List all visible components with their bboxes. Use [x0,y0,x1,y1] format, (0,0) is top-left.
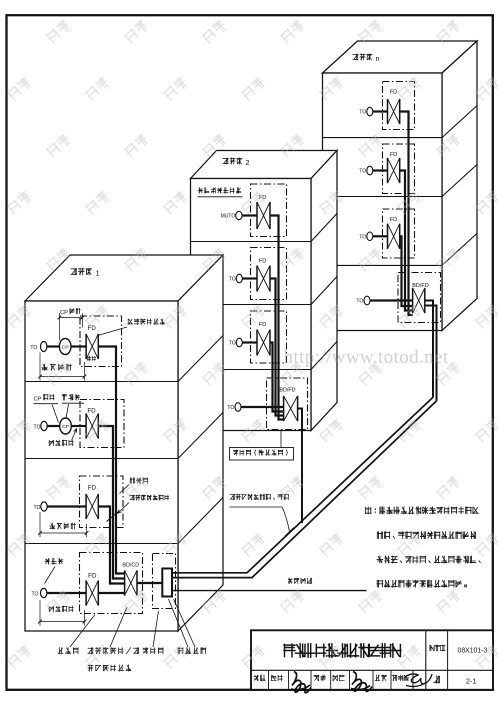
FD connector symbol, building 2 floor 3 [256,330,258,356]
tick across risers [107,512,119,522]
svg-text:2: 2 [246,158,250,167]
label: horizontal cable (floor 4) [49,606,73,612]
CP consolidation point, floor 2 [60,418,72,434]
svg-text:TO: TO [229,277,236,283]
label: building 1 [71,268,92,275]
label: building distributor / campus distributor equipment (2 lines) [88,648,139,654]
wire FD to BD/CD [98,592,124,594]
FD connector symbol, building 1 floor 1 [85,334,87,359]
building 1: isometric box [25,255,223,631]
FD box, building n floor 1 [383,82,415,130]
svg-text:FD: FD [259,259,266,265]
svg-text:TO: TO [359,110,366,116]
wire TO to CP [47,345,60,347]
FD connector symbol, building 1 floor 4 [85,580,87,605]
svg-text:FD: FD [88,573,97,580]
label: building n (jianzhuwu n) [353,54,372,60]
FD box, building 2 floor 1 [251,184,287,237]
svg-text:2-1: 2-1 [466,677,477,686]
svg-text:TO: TO [356,299,363,305]
svg-text:1: 1 [96,269,100,278]
label: building backbone cable [130,495,169,500]
campus trunk diagonal cable 1 (building n to entrance) [172,397,433,573]
label: entrance room [143,648,163,654]
wire TO to CP floor 2 [47,425,60,427]
external network line [172,590,367,592]
svg-text:FD: FD [88,485,97,492]
title block [251,630,493,690]
svg-text:MUTO: MUTO [221,214,236,220]
FD connector symbol, building n floor 2 [387,158,389,183]
signature 3 [405,674,432,687]
signature 1 [291,672,311,693]
leader from entrance room label to building 2 BD/FD [280,430,282,448]
label: permanent link dimension (floor 3) [50,523,75,529]
svg-text:BD/FD: BD/FD [412,283,429,289]
jumper label under FD [87,356,95,361]
wire TO to FD floor 3 [47,505,86,507]
wire TO to BD/FD, building n floor 4 [370,299,413,301]
building 2: isometric box [191,151,338,431]
wire TO to BD/FD, building 2 floor 4 [241,406,284,408]
wire MUTO to FD, building 2 floor 1 [242,214,256,216]
riser wire building 2 floor 2 [271,279,284,416]
wire CP to FD [71,345,86,347]
wire TO to FD, building n floor 1 [373,110,388,112]
entrance facility [162,569,172,597]
label: equipment room [58,648,78,654]
svg-text:CP: CP [62,345,69,351]
wire CP to FD floor 2 [71,425,86,427]
svg-text:TO: TO [32,591,39,597]
reviewer cells [254,675,265,681]
label: floor distributor equipment [128,319,165,325]
FD box, building 1 floor 3 [80,476,124,528]
riser wire from FD floor 3 down to BD/FD [400,236,413,306]
wire TO to FD, building n floor 2 [373,169,388,171]
svg-text:BD/CD: BD/CD [122,563,139,569]
svg-text:CP: CP [60,310,68,316]
FD connector symbol, building n floor 3 [387,224,389,249]
leader lines [52,405,59,423]
label: information point [45,558,63,564]
atlas number label [430,645,446,651]
svg-text:CP: CP [62,424,69,430]
page label [434,676,440,683]
label: horizontal cable (floor 2) [49,440,73,446]
label: entrance facility [178,648,206,654]
FD box, building 1 floor 2 [80,400,124,448]
label: consolidation point [62,394,80,400]
leader to FD [99,327,127,335]
FD box, building 2 floor 2 [251,248,287,300]
svg-text:FD: FD [390,152,397,158]
riser wire building 2 floor 3 [271,343,284,412]
outgoing trunk wires from building n BD/FD [425,301,433,398]
CP consolidation point, floor 1 [59,339,71,355]
svg-text:TO: TO [359,169,366,175]
outgoing trunk wire from building 2 BD/FD [298,409,302,524]
svg-text:TO: TO [227,405,234,411]
FD connector symbol, building 1 floor 3 [85,494,87,519]
label: campus backbone cable and optical cable [230,494,289,500]
label: building 2 [223,158,242,164]
BD/FD box, building n [398,273,441,323]
svg-text:FD: FD [259,322,266,328]
svg-text:TO: TO [359,235,366,241]
svg-text:FD: FD [88,325,97,332]
FD box, building 2 floor 3 [251,311,287,363]
equipment room box (FD + BD/CD) [80,553,143,614]
campus trunk diagonal cable 2 [172,401,437,578]
riser wire building 1 floor 2 [98,426,124,579]
svg-text:FD: FD [87,408,96,415]
BD/FD box, building 2 [267,378,308,430]
riser wire building 1 floor 1 down to BD/CD [98,347,124,574]
label box: entrance room (doubles as equipment room) [230,448,294,461]
svg-text:TO: TO [229,341,236,347]
riser wire from FD floor 1 down to BD/FD [400,112,413,316]
svg-text:FD: FD [390,217,397,223]
BD/FD connector symbol, building 2 [283,396,285,421]
riser wire from FD floor 2 down to BD/FD [400,171,413,311]
wire TO to FD, building 2 floor 3 [242,341,256,343]
building n: isometric box [323,41,478,331]
drawing title: integrated cabling system layout schematic [284,644,401,657]
svg-text:TO: TO [30,345,37,351]
wire TO to FD floor 4 [47,592,86,594]
svg-text:TO: TO [34,505,41,511]
svg-text:n: n [376,54,380,63]
FD connector symbol, building 1 floor 2 [85,413,87,438]
label: external network [288,578,312,584]
FD connector symbol, building 2 floor 1 [256,202,258,229]
FD connector symbol, building 2 floor 2 [256,266,258,292]
svg-text:FD: FD [390,90,397,96]
FD connector symbol, building n floor 1 [387,99,389,124]
svg-text:BD/FD: BD/FD [279,388,295,394]
riser wire building 2 floor 1 [271,216,284,420]
svg-text:08X101-3: 08X101-3 [458,646,488,655]
label: permanent link dimension (floor 1) [42,364,71,370]
riser wire building 1 floor 3 [98,507,124,584]
entrance facility dashed box [153,554,176,609]
BD/FD connector symbol, building n [412,288,414,313]
signature 2 [351,672,372,692]
svg-text:CP: CP [34,397,42,403]
label: telecom room [130,478,147,484]
svg-text:TO: TO [34,424,41,430]
note paragraph [365,507,478,514]
wire TO to FD, building n floor 3 [373,235,388,237]
FD box, building n floor 3 [383,209,415,258]
label: multi-user telecom outlet (building 2 floor 1) [198,188,241,194]
tick on diagonal cable [285,528,294,537]
wire BD/CD to entrance facility [137,582,162,584]
svg-text:http://www.totod.net: http://www.totod.net [284,347,449,368]
FD box, building 1 floor 1 [80,316,122,367]
FD box, building n floor 2 [383,144,415,194]
wire TO to FD, building 2 floor 2 [242,277,256,279]
